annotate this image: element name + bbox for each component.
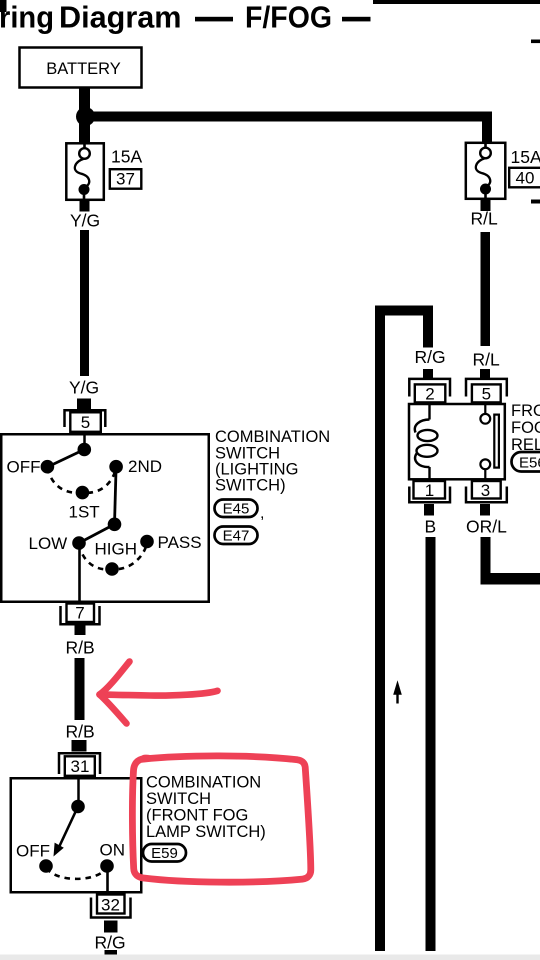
wire R/L (481, 232, 491, 346)
node contact top fog (71, 800, 85, 814)
svg-text:FOG LAMP: FOG LAMP (511, 419, 540, 437)
wire B down (426, 537, 436, 951)
svg-text:R/L: R/L (473, 350, 501, 370)
relay coil (415, 404, 438, 480)
wire Y/G (80, 230, 89, 376)
svg-text:1ST: 1ST (69, 503, 100, 522)
fuse F37 (66, 141, 104, 212)
fuse number box 40 (509, 168, 540, 188)
wire dashed arc LOW-HIGH-PASS (79, 544, 147, 570)
wire dashed arc OFF-1ST-2ND (47, 468, 116, 493)
svg-text:Y/G: Y/G (70, 211, 100, 231)
relay contact (480, 404, 499, 480)
wire horizontal main feed (85, 112, 492, 122)
oval E47 (215, 527, 258, 545)
svg-text:(FRONT FOG: (FRONT FOG (146, 807, 248, 825)
svg-text:E56: E56 (519, 455, 540, 472)
wire battery to fuse (79, 88, 90, 143)
svg-text:F/FOG: F/FOG (245, 0, 332, 35)
svg-text:2: 2 (425, 385, 434, 404)
node ON fog (100, 859, 114, 873)
svg-text:7: 7 (75, 604, 84, 623)
oval E56 (512, 452, 540, 472)
svg-text:R/B: R/B (66, 722, 95, 742)
svg-text:BATTERY: BATTERY (46, 60, 121, 78)
svg-text:1: 1 (425, 481, 434, 500)
wire 2ND down to junction (115, 467, 117, 525)
wire OR/L down (481, 537, 491, 585)
svg-text:OR/L: OR/L (466, 517, 507, 537)
svg-text:OFF: OFF (16, 842, 50, 861)
connector 2 (relay) (409, 369, 450, 404)
battery B1 (20, 48, 142, 88)
svg-text:R/L: R/L (471, 209, 499, 229)
wire ON to pin32 (106, 866, 109, 893)
top rule line (373, 0, 540, 4)
svg-text:FRONT: FRONT (511, 402, 540, 420)
connector 1 (relay) (409, 481, 450, 516)
svg-text:E47: E47 (223, 528, 250, 545)
node 1ST position (76, 486, 90, 500)
svg-text:ON: ON (100, 841, 126, 860)
connector 32 (91, 895, 131, 933)
svg-text:R/G: R/G (95, 933, 126, 953)
wire corner to fuse 40 (482, 112, 492, 144)
fuse F40 (466, 141, 506, 211)
wire contact arm to OFF (47, 450, 84, 468)
svg-text:32: 32 (101, 896, 120, 915)
node contact top (78, 443, 92, 457)
svg-text:Diagram: Diagram (59, 0, 182, 35)
annotation red arrow (100, 662, 218, 724)
svg-text:40: 40 (516, 169, 535, 188)
svg-text:31: 31 (71, 757, 90, 776)
wire junction to LOW (79, 524, 115, 543)
junction node dot (76, 107, 95, 126)
node mid junction (108, 518, 122, 532)
node 2ND position (109, 460, 123, 474)
svg-text:OFF: OFF (7, 458, 41, 477)
svg-text:LOW: LOW (29, 534, 68, 553)
wire contact arm with arrow (60, 807, 79, 847)
front fog lamp relay box (409, 404, 505, 479)
combination switch (lighting switch) box E45/E47 (1, 434, 209, 602)
svg-text:2ND: 2ND (128, 457, 162, 476)
svg-text:ring: ring (0, 0, 54, 35)
svg-text:15A: 15A (111, 147, 142, 167)
edge tick mark right y201 (531, 200, 540, 204)
annotation red box around fog switch label (132, 756, 310, 882)
svg-text:E45: E45 (223, 501, 250, 518)
svg-text:5: 5 (81, 413, 90, 432)
node OFF fog (39, 859, 53, 873)
wire LOW to pin7 (78, 543, 81, 604)
svg-text:HIGH: HIGH (95, 540, 138, 559)
oval E45 (215, 500, 258, 518)
fuse number box 37 (110, 169, 142, 189)
wire pin5 lead (83, 431, 86, 449)
connector 31 (59, 740, 100, 776)
connector 3 (relay) (466, 481, 507, 516)
connector 5 (relay) (466, 369, 507, 404)
node OFF position (41, 460, 55, 474)
svg-text:3: 3 (481, 481, 490, 500)
svg-text:,: , (260, 505, 264, 522)
svg-text:E59: E59 (151, 845, 178, 862)
svg-text:PASS: PASS (158, 533, 202, 552)
wire R/G return: top bar (375, 306, 433, 316)
connector 7 (61, 604, 100, 636)
svg-text:15A: 15A (511, 147, 540, 167)
svg-text:5: 5 (482, 385, 491, 404)
svg-text:B: B (425, 517, 437, 537)
wire OR/L to right edge (481, 573, 540, 585)
node PASS position (140, 535, 154, 549)
svg-text:37: 37 (116, 170, 135, 189)
svg-text:COMBINATION: COMBINATION (215, 428, 330, 446)
connector 5 (lighting switch) (65, 399, 106, 433)
corner artifact top-left (0, 0, 7, 12)
svg-text:COMBINATION: COMBINATION (146, 774, 261, 792)
wire R/G return: right leg (423, 306, 433, 348)
wire R/G return: left leg down page (375, 306, 385, 952)
wire stub bottom (105, 950, 118, 959)
svg-text:Y/G: Y/G (69, 378, 99, 398)
wire pin31 lead (77, 776, 80, 806)
wire dashed arc OFF-ON (47, 868, 107, 879)
wire R/B (75, 658, 85, 720)
node LOW position (72, 536, 86, 550)
combination switch (front fog lamp switch) box E59 (11, 778, 142, 892)
direction arrow up on R/G wire (393, 680, 402, 703)
svg-text:SWITCH): SWITCH) (215, 477, 286, 495)
node below HIGH (105, 562, 119, 576)
svg-text:LAMP SWITCH): LAMP SWITCH) (146, 823, 266, 841)
svg-text:R/G: R/G (415, 347, 446, 367)
bottom scan edge band (0, 955, 540, 960)
svg-text:SWITCH: SWITCH (146, 790, 211, 808)
oval E59 (143, 844, 186, 862)
edge tick mark right y41 (531, 40, 540, 44)
svg-text:R/B: R/B (66, 638, 95, 658)
